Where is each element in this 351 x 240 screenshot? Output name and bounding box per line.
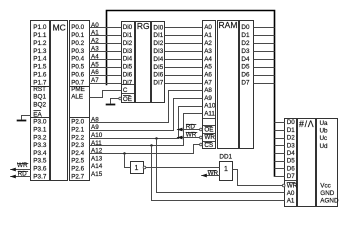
svg-text:P1.5: P1.5: [33, 64, 47, 71]
svg-text:WR: WR: [208, 170, 219, 177]
RAM block body: [203, 21, 216, 149]
svg-text:A6: A6: [91, 69, 99, 76]
wire net A11 from P2.3 to RAM A11: [90, 114, 203, 146]
svg-text:DD1: DD1: [219, 154, 232, 161]
svg-text:A0: A0: [91, 22, 99, 29]
svg-text:1: 1: [134, 165, 138, 172]
svg-text:A10: A10: [204, 103, 216, 110]
wire net A3 from P0.3 to RG DI3: [90, 51, 122, 53]
svg-text:EA: EA: [33, 111, 42, 118]
wire net A7 from P0.7 to RG DI7: [90, 83, 122, 85]
arrow WR at RAM WR: [177, 136, 183, 140]
svg-text:Di7: Di7: [123, 79, 133, 86]
svg-text:D6: D6: [287, 165, 296, 172]
svg-text:RST: RST: [33, 86, 46, 93]
svg-text:P0.3: P0.3: [71, 48, 84, 55]
svg-text:Di2: Di2: [123, 40, 133, 47]
svg-text:DI1: DI1: [153, 32, 163, 39]
svg-text:A0: A0: [204, 24, 212, 31]
svg-text:P3.3: P3.3: [33, 142, 47, 149]
RG OE inversion bubble: [119, 97, 122, 100]
svg-text:A2: A2: [204, 40, 212, 47]
wire data bus to DAC D6: [275, 168, 286, 170]
svg-text:P0.1: P0.1: [71, 32, 84, 39]
svg-text:P3.7: P3.7: [33, 173, 47, 180]
wire RG DI3 to RAM A3: [165, 51, 203, 53]
wire RG DI7 to RAM A7: [165, 83, 203, 85]
wire RAM D0 to data bus: [254, 27, 275, 29]
wire data bus to DAC D2: [275, 138, 286, 140]
svg-text:A8: A8: [91, 116, 99, 123]
wire net A1 from P0.1 to RG DI1: [90, 35, 122, 37]
svg-text:P0.2: P0.2: [71, 40, 84, 47]
wire ALE to RG C: [90, 91, 122, 98]
wire RG DI1 to RAM A1: [165, 35, 203, 37]
svg-text:A6: A6: [204, 72, 212, 79]
svg-text:P0.6: P0.6: [71, 72, 84, 79]
svg-text:RAM: RAM: [219, 20, 238, 30]
svg-text:Di3: Di3: [123, 48, 133, 55]
svg-text:A10: A10: [91, 132, 103, 139]
wire RAM D6 to data bus: [254, 75, 275, 77]
svg-text:P3.0: P3.0: [33, 119, 47, 126]
wire RG DI4 to RAM A4: [165, 59, 203, 61]
svg-text:D0: D0: [287, 119, 296, 126]
svg-text:D7: D7: [287, 173, 296, 180]
wire RAM D5 to data bus: [254, 67, 275, 69]
svg-text:P1.3: P1.3: [33, 48, 47, 55]
svg-text:AGND: AGND: [320, 198, 339, 205]
svg-text:WR: WR: [204, 134, 215, 141]
svg-text:P3.2: P3.2: [33, 134, 47, 141]
svg-text:A7: A7: [204, 80, 212, 87]
svg-text:Ua: Ua: [320, 120, 329, 127]
svg-text:OE: OE: [123, 96, 132, 103]
svg-text:OE: OE: [204, 126, 213, 133]
wire net A6 from P0.6 to RG DI6: [90, 75, 122, 77]
svg-text:A7: A7: [91, 77, 99, 84]
wire data bus to DAC D5: [275, 161, 286, 163]
svg-text:A11: A11: [204, 110, 215, 117]
wire RG DI2 to RAM A2: [165, 43, 203, 45]
arrow WR (left): [10, 168, 16, 172]
wire RAM D2 to data bus: [254, 43, 275, 45]
svg-text:P2.0: P2.0: [71, 119, 84, 126]
svg-text:P0.4: P0.4: [71, 56, 84, 63]
wire inverter output to DD1 input: [146, 167, 220, 169]
svg-text:A12: A12: [91, 148, 103, 155]
wire net A0 from P0.0 to RG DI0: [90, 27, 122, 29]
svg-text:A2: A2: [91, 38, 99, 45]
svg-text:A1: A1: [204, 32, 212, 39]
svg-text:P3.1: P3.1: [33, 127, 47, 134]
svg-text:D0: D0: [241, 24, 250, 31]
svg-text:A11: A11: [91, 140, 102, 147]
RAM CS inversion bubble: [200, 143, 203, 146]
svg-text:Di6: Di6: [123, 72, 133, 79]
junction on A12: [123, 152, 125, 154]
svg-text:A0: A0: [287, 190, 295, 197]
svg-text:P2.1: P2.1: [71, 127, 84, 134]
svg-text:WR: WR: [287, 182, 298, 189]
microcontroller MC block body: [31, 21, 50, 181]
svg-text:A1: A1: [287, 198, 295, 205]
svg-text:Di5: Di5: [123, 64, 133, 71]
svg-text:PME: PME: [71, 86, 85, 93]
svg-text:ALE: ALE: [71, 94, 83, 101]
arrow RD at RAM OE: [177, 128, 183, 132]
wire net A5 from P0.5 to RG DI5: [90, 67, 122, 69]
svg-text:WR: WR: [17, 162, 28, 169]
DAC WR inversion bubble: [282, 184, 285, 187]
svg-text:#/Λ: #/Λ: [299, 119, 314, 129]
svg-text:RG: RG: [137, 21, 150, 31]
svg-text:P0.5: P0.5: [71, 64, 84, 71]
svg-text:D3: D3: [287, 142, 296, 149]
arrow RD (left): [10, 175, 16, 179]
svg-text:A13: A13: [91, 155, 103, 162]
svg-text:P2.6: P2.6: [71, 166, 84, 173]
wire RAM D4 to data bus: [254, 59, 275, 61]
svg-text:DI3: DI3: [153, 48, 163, 55]
svg-text:Vcc: Vcc: [320, 182, 331, 189]
svg-text:MC: MC: [53, 23, 66, 33]
DAC (#/Λ) block body: [285, 119, 297, 207]
wire P3.6 WR out: [10, 169, 31, 171]
RAM WR inversion bubble: [200, 136, 203, 139]
svg-text:Ud: Ud: [320, 143, 329, 150]
svg-text:DI2: DI2: [153, 40, 163, 47]
svg-text:BQ2: BQ2: [33, 102, 46, 109]
RAM OE inversion bubble: [200, 128, 203, 131]
svg-text:A4: A4: [91, 53, 99, 60]
svg-text:CS: CS: [204, 142, 213, 149]
wire WR to RAM WR: [177, 137, 200, 139]
svg-text:P2.2: P2.2: [71, 134, 84, 141]
wire RAM D1 to data bus: [254, 35, 275, 37]
svg-text:BQ1: BQ1: [33, 94, 46, 101]
wire RD to RAM OE: [177, 129, 200, 131]
svg-text:P1.0: P1.0: [33, 24, 47, 31]
svg-text:P0.0: P0.0: [71, 24, 84, 31]
svg-text:D3: D3: [241, 48, 250, 55]
arrow WR at DD1: [201, 174, 207, 178]
svg-text:DI7: DI7: [153, 80, 163, 87]
svg-text:DI6: DI6: [153, 72, 163, 79]
svg-text:GND: GND: [320, 190, 334, 197]
inverter gate (NOT, A12) body: [131, 162, 144, 174]
svg-text:P2.7: P2.7: [71, 173, 84, 180]
wire RAM D7 to data bus: [254, 83, 275, 85]
svg-text:P1.6: P1.6: [33, 72, 47, 79]
svg-text:Di0: Di0: [123, 24, 133, 31]
svg-text:D4: D4: [287, 150, 296, 157]
wire DD1 output to DAC WR: [233, 170, 283, 186]
svg-text:P2.4: P2.4: [71, 150, 84, 157]
svg-text:D5: D5: [287, 158, 296, 165]
wire net A8 from P2.0 to RAM A8: [90, 91, 203, 123]
svg-text:DI0: DI0: [153, 24, 163, 31]
wire RG DI6 to RAM A6: [165, 75, 203, 77]
svg-text:C: C: [123, 87, 128, 94]
wire data bus to DAC D3: [275, 145, 286, 147]
svg-text:D1: D1: [241, 32, 250, 39]
svg-text:P1.1: P1.1: [33, 32, 47, 39]
wire RAM D3 to data bus: [254, 51, 275, 53]
logic gate DD1 (OR) body: [220, 162, 233, 181]
svg-text:D1: D1: [287, 127, 296, 134]
svg-text:P1.4: P1.4: [33, 56, 47, 63]
wire net A2 from P0.2 to RG DI2: [90, 43, 122, 45]
wire A11 branch to DAC A1: [152, 146, 285, 201]
wire WR into DD1: [201, 175, 220, 177]
svg-text:DI5: DI5: [153, 64, 163, 71]
wire RG DI5 to RAM A5: [165, 67, 203, 69]
svg-text:A14: A14: [91, 163, 103, 170]
svg-text:P1.2: P1.2: [33, 40, 47, 47]
svg-text:A4: A4: [204, 56, 212, 63]
wire net A4 from P0.4 to RG DI4: [90, 59, 122, 61]
wire data bus to DAC D0: [275, 122, 286, 124]
svg-text:A8: A8: [204, 87, 212, 94]
ground at EA: [17, 120, 27, 122]
ground at RG OE: [106, 104, 116, 106]
svg-text:Uc: Uc: [320, 135, 328, 142]
svg-text:Ub: Ub: [320, 128, 329, 135]
svg-text:A1: A1: [91, 30, 99, 37]
svg-text:A9: A9: [204, 95, 212, 102]
svg-text:D4: D4: [241, 56, 250, 63]
wire net A9 from P2.1 to RAM A9: [90, 99, 203, 131]
svg-text:1: 1: [224, 166, 228, 173]
svg-text:A5: A5: [91, 61, 99, 68]
wire net A12 from P2.4 to RAM CS: [90, 145, 200, 154]
wire RG OE to ground: [111, 99, 119, 104]
svg-text:A5: A5: [204, 64, 212, 71]
svg-text:A3: A3: [204, 48, 212, 55]
wire A12 branch to inverter input: [125, 154, 131, 168]
svg-text:D7: D7: [241, 80, 250, 87]
svg-text:A3: A3: [91, 46, 99, 53]
svg-text:Di1: Di1: [123, 32, 133, 39]
wire EA to ground: [22, 116, 31, 120]
svg-text:A15: A15: [91, 171, 103, 178]
svg-text:P2.3: P2.3: [71, 142, 84, 149]
wire data bus to DAC D7: [275, 176, 286, 178]
svg-text:D6: D6: [241, 72, 250, 79]
svg-text:A9: A9: [91, 124, 99, 131]
inverter output bubble: [143, 166, 146, 169]
wire data bus to DAC D1: [275, 130, 286, 132]
svg-text:P3.4: P3.4: [33, 150, 47, 157]
wire data bus to DAC D4: [275, 153, 286, 155]
wire net A10 from P2.2 to RAM A10: [90, 107, 203, 139]
svg-text:P3.6: P3.6: [33, 166, 47, 173]
svg-text:D5: D5: [241, 64, 250, 71]
junction on A11: [150, 144, 152, 146]
wire RG DI0 to RAM A0: [165, 27, 203, 29]
wire P3.7 RD out: [10, 176, 31, 178]
svg-text:P2.5: P2.5: [71, 158, 84, 165]
svg-text:D2: D2: [287, 135, 296, 142]
register RG block body: [122, 22, 135, 103]
svg-text:Di4: Di4: [123, 56, 133, 63]
data bus (thick) from P0 over top to RAM/DAC data pins: [107, 11, 275, 177]
svg-text:DI4: DI4: [153, 56, 163, 63]
junction on A10: [155, 137, 157, 139]
wire A10 branch to DAC A0: [157, 139, 285, 193]
svg-text:P3.5: P3.5: [33, 158, 47, 165]
svg-text:D2: D2: [241, 40, 250, 47]
